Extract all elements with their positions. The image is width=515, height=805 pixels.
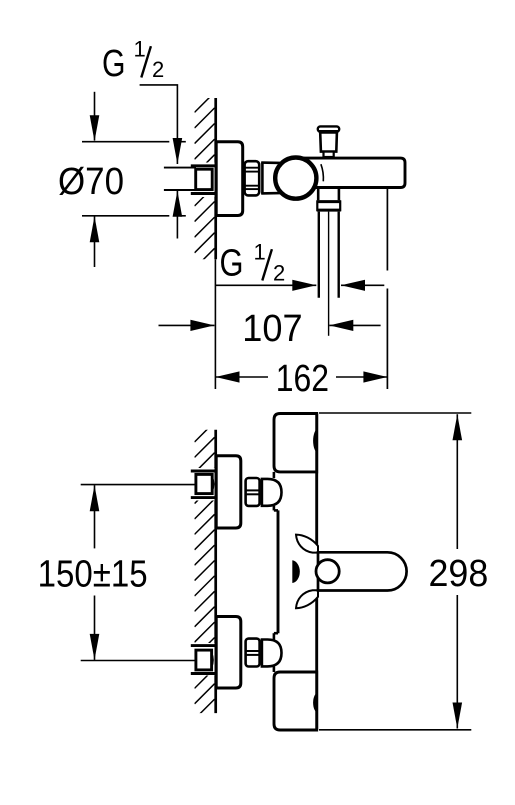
svg-text:298: 298 — [429, 553, 489, 595]
dimension Ø70 (flange diameter) — [82, 142, 186, 216]
upper union dome sleeve — [262, 479, 282, 506]
dimension 107 (wall to hose centre) — [159, 324, 215, 326]
G1/2 wall nipple square (top view) — [196, 169, 214, 191]
svg-text:2: 2 — [273, 261, 285, 286]
escutcheon flange (top view, seen edge-on) — [216, 142, 243, 216]
hose connection ring nut — [317, 200, 341, 211]
body right edge (plan) — [315, 414, 318, 731]
lower wing of spout bracket — [296, 590, 318, 608]
diverter ring on spout (plan) — [316, 560, 339, 583]
label G 1/2 (wall nipple thread, top) — [102, 36, 164, 85]
handle lever dark crescent — [292, 560, 300, 583]
mixer body (top view) — [292, 158, 405, 187]
lower escutcheon flange (plan) — [216, 617, 241, 689]
upper union hex nut (plan) — [246, 478, 260, 506]
union hex nut (top view) — [245, 161, 260, 195]
upper wing of spout bracket — [296, 535, 318, 553]
white backing for upper union nipple — [188, 468, 215, 501]
hose thread dim line G1/2 — [215, 284, 316, 286]
dimension 298 (body length) — [319, 413, 471, 730]
dimension 150±15 (connection centres) — [90, 485, 100, 511]
leader line from G1/2 to nipple — [140, 85, 178, 140]
wall fitting bars above/below nipple — [191, 166, 215, 194]
svg-text:150±15: 150±15 — [38, 553, 148, 595]
white backing for wall nipple area — [188, 163, 215, 198]
svg-text:162: 162 — [276, 358, 329, 400]
body left edge between unions (plan) — [277, 510, 280, 633]
upper union wall bars — [191, 471, 215, 498]
body top cap / handle (plan) — [274, 414, 317, 472]
spout (plan view) — [318, 552, 407, 590]
lower union wall square — [196, 650, 213, 670]
shower hose lines — [319, 212, 339, 298]
wall hatching (top view) — [195, 92, 215, 268]
body shading arc near knob — [321, 164, 324, 181]
union sleeve between nut and knob — [261, 162, 280, 193]
wall face line (plan view) — [214, 430, 217, 713]
lower arrow of nipple thread dim — [173, 191, 183, 217]
thermostat knob circle (top view) — [275, 158, 316, 199]
wall extension line continuing down (left extension for dims) — [214, 259, 216, 389]
150±15 upper extension line — [81, 484, 195, 486]
label G 1/2 (shower hose thread) — [220, 240, 286, 286]
wall hatching (plan view) — [195, 422, 215, 719]
diverter knob base collar — [324, 152, 334, 157]
white backing for lower union nipple — [188, 643, 215, 676]
diverter knob cap — [318, 126, 339, 131]
svg-text:G: G — [220, 243, 244, 285]
diverter knob stem — [320, 133, 337, 152]
svg-text:2: 2 — [152, 57, 164, 82]
svg-text:107: 107 — [242, 308, 302, 350]
lower union hex nut (plan) — [246, 639, 260, 667]
lower union dome sleeve — [262, 640, 282, 667]
body bottom cap / handle (plan) — [274, 672, 317, 730]
150±15 lower extension line — [81, 660, 195, 662]
hose centre line (extension for 107) — [328, 212, 330, 336]
right extension line from body (162 dim) — [386, 189, 388, 389]
dark dimple on upper cap — [313, 429, 318, 453]
union boss edges upper — [274, 472, 278, 511]
svg-text:1: 1 — [134, 36, 146, 61]
upper union wall square — [196, 474, 214, 493]
shower outlet box below body — [318, 188, 339, 201]
upper escutcheon flange (plan) — [216, 456, 241, 528]
lower union wall bars — [191, 646, 215, 674]
wall face line (top view) — [214, 98, 217, 259]
svg-text:1: 1 — [254, 240, 266, 265]
svg-text:Ø70: Ø70 — [58, 161, 124, 203]
svg-text:G: G — [102, 43, 126, 85]
dimension 162 (wall to spout outlet) — [216, 376, 269, 378]
union boss edges lower — [274, 633, 278, 672]
supply pipe behind wall — [164, 168, 196, 190]
dark dimple on lower cap — [313, 693, 318, 713]
